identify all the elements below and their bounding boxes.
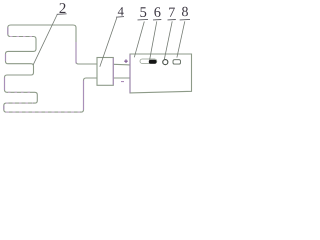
label 2 underline (57, 13, 67, 16)
tooth speckle 92 (8, 91, 34, 93)
serpentine right vertical lower part (purple tint) (75, 42, 77, 63)
label 5 underline (138, 18, 149, 21)
serpentine left verticals (purple tint) (4, 28, 8, 110)
connector 8 (small socket) (173, 60, 181, 64)
label 5 digit (140, 7, 146, 17)
leader line for label 7 (164, 21, 172, 59)
label 8 underline (180, 18, 190, 21)
tooth speckle 36 (10, 36, 33, 38)
leader line for label 4 (100, 18, 117, 67)
component 4 (rectifier block) (97, 58, 113, 86)
leader line for label 8 (177, 21, 185, 57)
plus polarity mark (124, 59, 128, 63)
leader line for label 2 (33, 15, 57, 65)
slider switch 6 knob (black) (149, 60, 157, 64)
label 2 digit (59, 3, 65, 13)
label 6 underline (153, 19, 161, 21)
control box left edge (purple tint) (129, 55, 131, 93)
component 4 right edge (purple tint) (112, 58, 114, 85)
label 6 digit (154, 7, 160, 17)
slider switch 6 body (140, 59, 157, 63)
heating element 2 (serpentine coil) (4, 25, 97, 112)
leader line for label 5 (134, 22, 144, 58)
label 7 underline (168, 19, 176, 21)
label 4 underline (116, 16, 124, 19)
bottom return wire speckle (6, 111, 80, 113)
label 8 digit (182, 7, 188, 16)
tooth speckle 103 (6, 102, 33, 104)
control box 5 (housing) (130, 54, 192, 93)
leader line for label 6 (150, 21, 157, 60)
wire - from component 4 to control box (113, 77, 129, 79)
minus polarity mark (121, 81, 124, 83)
label 7 digit (169, 8, 175, 17)
wire + from component 4 to control box (113, 63, 130, 66)
label 4 digit (118, 7, 124, 15)
serpentine return vertical (purple tint) (83, 81, 85, 111)
indicator 7 (round jack) (163, 60, 168, 65)
